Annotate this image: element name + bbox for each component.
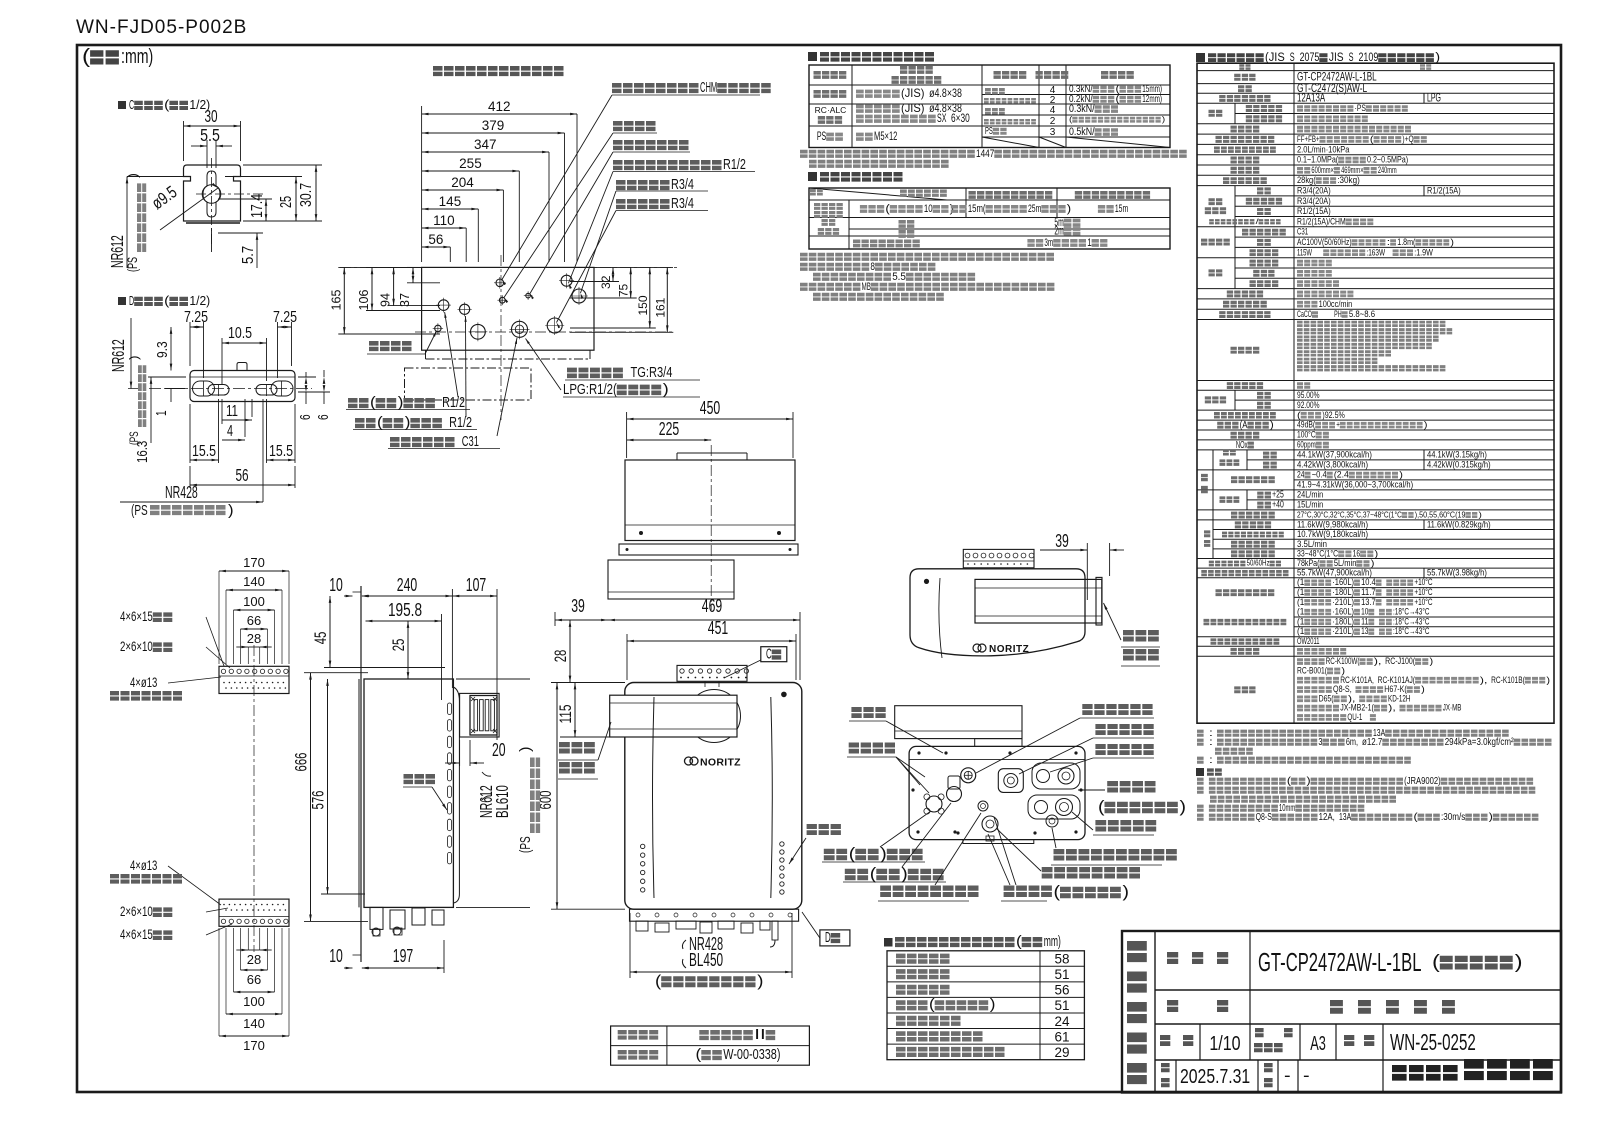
svg-text:SX: SX [937, 112, 947, 125]
svg-text:(: ( [696, 1047, 702, 1063]
svg-text:5.5: 5.5 [200, 125, 220, 145]
svg-text:58: 58 [1054, 952, 1069, 967]
svg-text:379: 379 [482, 118, 505, 133]
svg-text:+: + [1336, 420, 1340, 430]
side view top edge extension [456, 679, 530, 907]
svg-text:29: 29 [1054, 1045, 1069, 1060]
side view dims 576 666 [292, 673, 369, 922]
svg-text:469mm×: 469mm× [1341, 165, 1364, 175]
svg-text:JIS: JIS [1329, 50, 1344, 64]
svg-text:ø12.7: ø12.7 [1362, 737, 1383, 748]
svg-text:): ) [1399, 470, 1403, 480]
svg-text:): ) [1424, 420, 1428, 430]
svg-text:(PS: (PS [127, 431, 141, 445]
side view top dims 10 240 107 [329, 575, 497, 740]
svg-text:150: 150 [636, 295, 650, 315]
svg-text:(: ( [885, 203, 890, 215]
note: fixing regulation text [800, 148, 1187, 168]
svg-text:49dB(: 49dB( [1297, 420, 1315, 430]
svg-text:6m,: 6m, [1346, 737, 1358, 748]
svg-text:FF+FB+: FF+FB+ [1297, 134, 1320, 144]
svg-text:13: 13 [1361, 626, 1368, 636]
svg-text:(: ( [1016, 934, 1022, 950]
svg-text:50/60Hz: 50/60Hz [1247, 559, 1270, 568]
svg-text:BL610: BL610 [492, 785, 512, 818]
bottom view drain valve label bottom [988, 817, 1052, 901]
svg-text:24: 24 [1054, 1014, 1070, 1029]
svg-text:2×6×10: 2×6×10 [120, 904, 153, 919]
svg-text:28: 28 [247, 952, 261, 967]
svg-text:20: 20 [492, 740, 506, 760]
svg-text:·160L): ·160L) [1332, 607, 1354, 617]
svg-text:·PS: ·PS [1355, 103, 1366, 113]
svg-text:): ) [1429, 656, 1433, 666]
svg-text:16: 16 [1353, 548, 1361, 558]
svg-text:78kPa(: 78kPa( [1297, 558, 1320, 568]
svg-text:9.3: 9.3 [155, 341, 171, 358]
svg-text:2m: 2m [1054, 225, 1063, 238]
svg-text:(JIS): (JIS) [901, 87, 925, 100]
svg-text::18°C→43°C: :18°C→43°C [1393, 626, 1430, 636]
svg-text:25: 25 [278, 196, 295, 208]
svg-text:(1: (1 [1297, 626, 1304, 636]
svg-text:C: C [129, 97, 134, 112]
svg-text:(1: (1 [1297, 577, 1304, 587]
svg-text:R1/2: R1/2 [442, 395, 465, 411]
spec table title [1196, 50, 1440, 64]
svg-text:450: 450 [700, 398, 720, 418]
C-part dia 9.5 label [148, 182, 218, 230]
svg-text:PS: PS [985, 126, 993, 137]
svg-text:RC-K101B(: RC-K101B( [1491, 675, 1525, 685]
applicable frame table [611, 1026, 810, 1065]
C-part dim 25 [225, 177, 302, 222]
svg-text:100cc/min: 100cc/min [1319, 299, 1353, 309]
svg-text:3.5L/min: 3.5L/min [1297, 539, 1327, 549]
rear view dim 39 [1040, 531, 1124, 600]
plate dims above [219, 555, 289, 664]
svg-text:4×ø13: 4×ø13 [130, 858, 157, 873]
svg-text:): ) [757, 973, 763, 990]
svg-text:4×6×15: 4×6×15 [120, 927, 153, 942]
svg-text:WN-25-0252: WN-25-0252 [1390, 1029, 1476, 1055]
D-part dim 1 [154, 389, 185, 417]
svg-text:15.5: 15.5 [269, 443, 293, 460]
bottom view filter drain label [1072, 781, 1186, 816]
svg-text:(2.4: (2.4 [1334, 470, 1349, 480]
svg-text:10: 10 [1361, 607, 1368, 617]
connection heights table [887, 951, 1084, 1060]
svg-text:66: 66 [247, 972, 261, 987]
svg-text:28: 28 [247, 631, 261, 646]
wall plate center line [253, 645, 255, 952]
svg-text:PH: PH [1334, 309, 1342, 319]
top view right vertical dims [570, 267, 673, 332]
svg-text:): ) [1067, 203, 1071, 215]
side view air intake label [403, 774, 447, 810]
top view left vertical dims [329, 267, 440, 334]
svg-text:28kg(: 28kg( [1297, 175, 1316, 185]
svg-text:): ) [1546, 675, 1550, 685]
D-part dim 15.5 right [267, 399, 296, 463]
svg-text:3: 3 [1050, 127, 1056, 138]
title block frame [1122, 931, 1561, 1093]
svg-text:25m: 25m [1028, 203, 1041, 215]
svg-text:2109: 2109 [1358, 50, 1378, 64]
svg-text::18°C→43°C: :18°C→43°C [1393, 607, 1430, 617]
svg-text:140: 140 [243, 574, 265, 589]
svg-text:R1/2: R1/2 [449, 415, 472, 431]
svg-text:MB: MB [862, 281, 871, 293]
bottom view labels left [847, 707, 943, 793]
svg-text:44.1kW(37,900kcal/h): 44.1kW(37,900kcal/h) [1297, 450, 1372, 460]
rear view body [910, 569, 1085, 658]
table: fixing specs and accessory parts - title [808, 52, 934, 62]
front view exhaust duct left [610, 690, 741, 743]
svg-text:(: ( [82, 46, 90, 68]
svg-text:): ) [950, 203, 954, 215]
svg-text:(JIS): (JIS) [901, 102, 925, 115]
svg-text:5.5: 5.5 [892, 271, 906, 283]
title block vertical caption [1127, 941, 1147, 1084]
top view body outline [405, 267, 595, 400]
svg-text:10.4: 10.4 [1361, 577, 1376, 587]
svg-text:PS: PS [817, 130, 827, 143]
svg-text:(: ( [377, 415, 383, 431]
svg-text:33~48°C(1°C: 33~48°C(1°C [1297, 548, 1338, 558]
connection heights table title [884, 934, 1061, 950]
svg-text:WN-FJD05-P002B: WN-FJD05-P002B [76, 17, 247, 38]
D-part dim 10.5 [222, 325, 267, 384]
front view vent holes [641, 842, 785, 894]
svg-text:2075: 2075 [1300, 50, 1320, 64]
svg-text::30m/s: :30m/s [1441, 812, 1465, 823]
side view dim 20 [445, 740, 506, 766]
svg-text:): ) [990, 997, 996, 1013]
title block drawing name row [1167, 990, 1455, 1024]
svg-text:D65(: D65( [1319, 693, 1335, 703]
svg-text:24L/min: 24L/min [1297, 490, 1323, 500]
svg-text:): ) [663, 381, 669, 398]
svg-text:95.00%: 95.00% [1297, 390, 1320, 400]
svg-text::18°C→43°C: :18°C→43°C [1393, 616, 1430, 626]
svg-text:(: ( [849, 845, 856, 863]
C-part dim 30 [184, 106, 241, 161]
svg-text:2×6×10: 2×6×10 [120, 639, 153, 654]
svg-text::1.9W: :1.9W [1414, 247, 1433, 257]
C-part dim 5.7 [212, 228, 264, 268]
svg-text:30: 30 [204, 106, 217, 126]
svg-text:92.00%: 92.00% [1297, 400, 1320, 410]
svg-text:255: 255 [459, 156, 482, 171]
svg-text:0.1~1.0MPa(: 0.1~1.0MPa( [1297, 155, 1339, 165]
svg-text:4: 4 [227, 423, 233, 440]
svg-text:GT-CP2472AW-L-1BL: GT-CP2472AW-L-1BL [1258, 949, 1422, 977]
D-part NR428 pitch [120, 399, 263, 519]
svg-text:55.7kW(3.98kg/h): 55.7kW(3.98kg/h) [1427, 568, 1487, 578]
C-part dim 30.7 [243, 165, 322, 221]
svg-text:56: 56 [428, 232, 443, 247]
svg-text:AC100V(50/60Hz): AC100V(50/60Hz) [1297, 237, 1352, 247]
svg-text:451: 451 [708, 618, 728, 638]
bottom wall mounting plate [219, 899, 289, 926]
side view NR612 BL610 pitch labels [476, 746, 540, 853]
front view body [625, 683, 802, 910]
svg-text:(1: (1 [1297, 597, 1304, 607]
svg-text:4×6×15: 4×6×15 [120, 609, 153, 624]
svg-text:27°C,30°C,32°C,35°C,37~48°C(1°: 27°C,30°C,32°C,35°C,37~48°C(1°C [1297, 509, 1402, 519]
svg-text:R1/2(15A): R1/2(15A) [1297, 206, 1331, 216]
svg-text:5.7: 5.7 [240, 246, 257, 264]
svg-text:+40: +40 [1272, 500, 1284, 511]
svg-text:R1/2: R1/2 [723, 157, 746, 173]
bottom view bath return label [822, 811, 931, 863]
title block scale row [1160, 1024, 1476, 1060]
svg-text:(1: (1 [1297, 587, 1304, 597]
top view drain valve label [367, 331, 437, 354]
svg-text:41.9~4.31kW(36,000~3,700kcal/h: 41.9~4.31kW(36,000~3,700kcal/h) [1297, 480, 1413, 490]
svg-text:): ) [1478, 509, 1482, 519]
svg-text:C31: C31 [1297, 227, 1308, 237]
D-part dim 9.3 [155, 327, 172, 371]
svg-text:R3/4: R3/4 [671, 196, 694, 212]
svg-text:NORITZ: NORITZ [700, 757, 741, 769]
front plan view fan box [608, 445, 798, 610]
svg-text:100°C: 100°C [1297, 430, 1316, 440]
svg-text:5.8~8.6: 5.8~8.6 [1349, 309, 1375, 319]
svg-text:11.6kW(9,980kcal/h): 11.6kW(9,980kcal/h) [1297, 519, 1368, 529]
svg-text:(: ( [164, 293, 170, 308]
svg-text:QU-1: QU-1 [1347, 712, 1362, 722]
top view title [433, 66, 564, 76]
C-part detail title [118, 97, 210, 112]
svg-text:): ) [228, 503, 234, 519]
svg-text:60ppm: 60ppm [1297, 440, 1316, 450]
C-part dim 17.4 [218, 194, 272, 221]
svg-text:3m: 3m [1044, 237, 1053, 249]
svg-text:): ) [1450, 237, 1454, 247]
spec table grid [1197, 63, 1554, 723]
svg-text:+10°C: +10°C [1414, 577, 1432, 587]
svg-text:347: 347 [474, 137, 497, 152]
svg-text:15L/min: 15L/min [1297, 500, 1323, 510]
top view gas connection label [526, 339, 701, 399]
svg-text:M5×12: M5×12 [874, 130, 897, 143]
table: reheating piping contents [810, 189, 1150, 249]
svg-text:56: 56 [235, 465, 248, 485]
svg-text:61: 61 [1054, 1029, 1069, 1044]
svg-text:8: 8 [870, 261, 875, 273]
svg-text:~0.4: ~0.4 [1312, 470, 1327, 480]
D-part dim 56 [190, 465, 295, 488]
svg-text:15m(: 15m( [968, 203, 986, 215]
labels below top view [346, 312, 517, 450]
svg-text:OW2011: OW2011 [1297, 636, 1320, 646]
svg-text:ø4.8×38: ø4.8×38 [929, 87, 962, 100]
svg-text:): ) [1421, 684, 1425, 694]
svg-text:D: D [825, 930, 831, 946]
rear view top mounting plate [963, 549, 1034, 567]
svg-text:): ) [125, 173, 140, 178]
top view center lines [340, 255, 680, 420]
svg-text:NORITZ: NORITZ [989, 644, 1029, 655]
svg-text:)+Q: )+Q [1402, 134, 1413, 144]
top wall mounting plate [219, 666, 289, 693]
svg-text:165: 165 [329, 290, 343, 311]
svg-text:(JIS: (JIS [1265, 50, 1285, 64]
svg-text:R3/4(20A): R3/4(20A) [1297, 196, 1331, 206]
svg-text:(: ( [1432, 951, 1440, 973]
D-part dim 15.5 left [190, 399, 219, 463]
svg-text::30kg): :30kg) [1337, 175, 1360, 185]
svg-text:6×30: 6×30 [951, 112, 970, 125]
svg-text:(: ( [1069, 114, 1073, 124]
svg-text:10.5: 10.5 [228, 325, 252, 342]
side view dim 195.8 [366, 600, 442, 700]
D-part dim 7.25 left [184, 309, 208, 378]
svg-text:(1: (1 [1297, 616, 1304, 626]
svg-text:13.7: 13.7 [1361, 597, 1376, 607]
svg-text:11.7: 11.7 [1361, 587, 1376, 597]
svg-text:3: 3 [1318, 737, 1322, 748]
C-part dim 5.5 [191, 125, 232, 168]
svg-text:32: 32 [599, 275, 613, 289]
plate labels bottom [110, 858, 232, 942]
rear view exhaust labels [1104, 603, 1161, 666]
svg-text:110: 110 [433, 213, 455, 228]
svg-text:): ) [1162, 114, 1166, 124]
svg-text:5L/min: 5L/min [1334, 558, 1357, 568]
svg-text:39: 39 [571, 596, 585, 616]
plate labels top [110, 609, 230, 701]
svg-text:(: ( [1054, 883, 1061, 901]
svg-text:R1/2(15A): R1/2(15A) [1427, 185, 1461, 195]
svg-text:1/2): 1/2) [189, 293, 210, 308]
svg-text:1.8m(: 1.8m( [1397, 237, 1415, 247]
svg-text:R3/4(20A): R3/4(20A) [1297, 185, 1331, 195]
C-part NR612 pitch label [107, 173, 186, 272]
svg-text:10: 10 [924, 203, 933, 215]
svg-text:600mm×: 600mm× [1311, 165, 1334, 175]
document number [76, 17, 247, 38]
svg-text:): ) [880, 845, 887, 863]
front view air intake label right [789, 824, 841, 864]
svg-text:(: ( [929, 997, 935, 1013]
svg-text::: : [1209, 737, 1213, 748]
svg-text:12A13A: 12A13A [1297, 92, 1325, 105]
svg-text:197: 197 [393, 946, 413, 966]
svg-text:2: 2 [1050, 116, 1056, 127]
svg-text:S: S [1290, 50, 1295, 64]
svg-text::mm): :mm) [121, 46, 153, 68]
svg-text:13A: 13A [1339, 812, 1351, 823]
svg-text:4.42kW(3,800kcal/h): 4.42kW(3,800kcal/h) [1297, 460, 1368, 470]
svg-text:(: ( [164, 97, 170, 112]
svg-text:CHM: CHM [700, 80, 717, 96]
side view wall line [353, 586, 362, 962]
svg-text:II: II [754, 1027, 765, 1043]
svg-text:·160L): ·160L) [1332, 577, 1354, 587]
svg-text:(JRA9002): (JRA9002) [1404, 776, 1441, 787]
svg-text:1: 1 [154, 410, 170, 416]
svg-text:C: C [766, 647, 772, 663]
svg-text:A3: A3 [1310, 1032, 1326, 1055]
svg-text:(1: (1 [1297, 607, 1304, 617]
svg-text:15m: 15m [1115, 203, 1128, 215]
plate dims below [219, 928, 289, 1053]
svg-text:6: 6 [298, 414, 314, 420]
svg-text:+10°C: +10°C [1414, 587, 1432, 597]
bottom view fittings [924, 763, 1080, 841]
front view NR428 BL450 pitch [630, 913, 792, 990]
front view C-part label box [724, 647, 787, 679]
svg-text:4.42kW(0.315kg/h): 4.42kW(0.315kg/h) [1427, 460, 1491, 470]
svg-text:115W: 115W [1297, 247, 1312, 257]
side view bottom pipes [370, 907, 444, 936]
top view horizontal dimension chain [422, 99, 577, 262]
svg-text:204: 204 [451, 175, 474, 190]
svg-text:7.25: 7.25 [273, 309, 297, 326]
svg-text:37: 37 [398, 293, 412, 307]
svg-text:LPG: LPG [1427, 92, 1441, 105]
bottom view overflow label [1051, 828, 1177, 865]
svg-text:(: ( [870, 865, 877, 883]
svg-text:·180L): ·180L) [1332, 616, 1354, 626]
svg-text:576: 576 [309, 791, 328, 810]
svg-text::: : [1387, 237, 1391, 247]
svg-text:),: ), [1388, 703, 1396, 713]
svg-text:): ) [405, 415, 411, 431]
svg-text:(: ( [655, 973, 662, 990]
unit note [82, 46, 153, 68]
spec table labels [1201, 64, 1289, 693]
table: fixing specs grid [809, 65, 1170, 148]
svg-text:1447: 1447 [976, 148, 994, 160]
svg-text:-: - [1303, 1065, 1310, 1085]
svg-text:25: 25 [389, 639, 408, 652]
svg-text:NR612: NR612 [108, 339, 128, 372]
svg-text:666: 666 [292, 753, 311, 772]
svg-text:+10°C: +10°C [1414, 597, 1432, 607]
svg-text:1/10: 1/10 [1209, 1032, 1240, 1055]
side view bottom dims 10 197 [329, 940, 444, 973]
svg-text:294kPa=3.0kgf/cm²: 294kPa=3.0kgf/cm² [1445, 737, 1514, 748]
svg-text:): ) [1123, 883, 1130, 901]
svg-text:JX·MB: JX·MB [1443, 703, 1462, 713]
svg-text::163W: :163W [1366, 247, 1385, 257]
svg-text:51: 51 [1054, 967, 1069, 982]
svg-text:): ) [398, 395, 404, 411]
svg-text:100: 100 [243, 594, 265, 609]
svg-text:240mm: 240mm [1378, 165, 1397, 175]
svg-text:RC·ALC: RC·ALC [815, 105, 847, 115]
svg-text:NR428: NR428 [165, 482, 198, 502]
svg-text::: : [1209, 755, 1213, 766]
front view D-part label box [802, 912, 850, 946]
svg-text:BL450: BL450 [689, 950, 723, 970]
svg-text:(PS: (PS [125, 257, 140, 272]
svg-text:LPG:R1/2(: LPG:R1/2( [563, 381, 617, 398]
side view exhaust duct right [460, 693, 500, 737]
svg-text:): ) [1307, 776, 1311, 787]
svg-text:115: 115 [556, 705, 575, 724]
front plan view dims 450 225 [627, 398, 793, 458]
svg-text:(A: (A [1240, 420, 1248, 431]
svg-text:RC-B001(: RC-B001( [1297, 666, 1328, 676]
svg-text:·180L): ·180L) [1332, 587, 1354, 597]
top view connection holes [433, 273, 588, 341]
svg-text:6: 6 [316, 414, 332, 420]
